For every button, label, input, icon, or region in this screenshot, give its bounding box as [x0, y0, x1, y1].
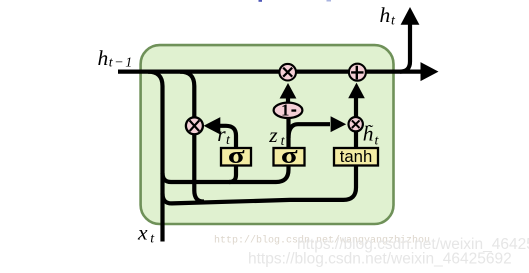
svg-text:r: r	[217, 122, 226, 146]
svg-text:tanh: tanh	[340, 147, 373, 166]
svg-text:x: x	[137, 221, 148, 245]
svg-text:https://blog.csdn.net/weixin_4: https://blog.csdn.net/weixin_46425692	[248, 251, 512, 268]
svg-text:h: h	[380, 3, 391, 27]
svg-text:1: 1	[281, 101, 289, 120]
svg-text:h: h	[98, 46, 109, 70]
svg-text:t−1: t−1	[109, 56, 133, 71]
svg-text:σ: σ	[228, 141, 245, 168]
svg-text:z: z	[268, 123, 278, 147]
